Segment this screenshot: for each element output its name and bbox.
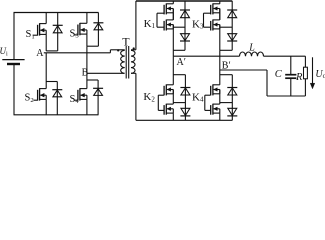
wire: K3 bottom to node B' (crosses A' wire) (219, 50, 221, 70)
wire: K4 top connection (219, 70, 221, 85)
bidirectional switch K1: upper MOSFET (164, 1, 173, 14)
K2: lower MOSFET (164, 104, 173, 115)
wire: K1 diode mid link (173, 26, 185, 28)
wire: inductor to output top right corner, down to R (264, 56, 306, 67)
wire: output bottom (267, 95, 305, 97)
svg-text:A′: A′ (177, 57, 186, 68)
switch S1 (MOSFET) (33, 13, 46, 36)
bidirectional switch K2: upper MOSFET (164, 84, 173, 95)
wire: K1 gate tie (157, 13, 164, 27)
K1 upper diode (cathode up) (180, 1, 190, 34)
wire: left vertical, top rail to battery (13, 13, 15, 60)
wire: S3 source junction to D3 (87, 34, 99, 46)
wire: K2 gate tie (158, 95, 164, 110)
wire: right bridge bottom rail (136, 119, 233, 121)
K1: lower MOSFET (164, 13, 173, 31)
wire: K4 tap to diode column (220, 74, 233, 76)
wire: B' down to output bottom (266, 70, 268, 96)
wire: right bridge top rail (136, 0, 232, 2)
polarity dot secondary (133, 47, 135, 49)
wire: K4 gate tie (205, 95, 211, 110)
transformer core (126, 46, 129, 79)
transformer T secondary winding (131, 50, 136, 74)
bidirectional switch K4: upper MOSFET (211, 84, 220, 95)
wire: S2 source to bottom rail (45, 99, 47, 114)
output voltage arrow Uo (310, 57, 315, 89)
wire: S4 drain tap to D4 (87, 79, 98, 81)
switch S2 (MOSFET) (33, 88, 46, 100)
node A' wire (173, 50, 239, 56)
wire: K3 bottom junction (220, 25, 232, 51)
wire: secondary top to right bridge top rail (135, 1, 137, 50)
wire: K3 gate tie (204, 13, 211, 27)
K4 upper diode (cathode up) (227, 75, 237, 109)
K3 lower diode (cathode down) (227, 34, 237, 51)
wire: K2 tap to diode column (173, 74, 185, 76)
transformer T primary winding (110, 50, 124, 74)
wire: S2 drain tap to D2 (46, 81, 57, 83)
wire: K1 bottom junction (173, 25, 185, 51)
diode D1 (antiparallel with S1) (53, 13, 63, 51)
svg-text:B′: B′ (222, 61, 231, 72)
wire: secondary bottom to right bridge bottom rail (135, 73, 137, 120)
node B' wire (220, 69, 267, 71)
polarity dot primary (117, 49, 119, 51)
svg-text:C: C (275, 69, 283, 80)
K1 lower diode (cathode down) (180, 34, 190, 51)
wire: left bridge bottom rail (14, 114, 99, 116)
bidirectional switch K3: upper MOSFET (211, 1, 220, 14)
K3: lower MOSFET (211, 13, 220, 31)
wire: K2 series link between MOSFETs (172, 90, 174, 105)
wire: left vertical, battery to bottom rail (13, 64, 15, 115)
wire: K2 source to bottom rail (172, 113, 174, 120)
wire: node B down to S4 drain (86, 73, 88, 88)
diode D3 (antiparallel with S3) (93, 13, 103, 47)
wire: S4 source to bottom rail (86, 99, 88, 114)
wire: node B to transformer primary bottom (87, 72, 124, 74)
K4 lower diode (cathode down) (227, 108, 237, 120)
wire: K3 diode mid link (220, 26, 232, 28)
wire: K2 diode mid link (173, 102, 185, 104)
wire: K4 diode mid link (220, 102, 233, 104)
K3 upper diode (cathode up) (227, 1, 237, 34)
diode D2 (antiparallel with S2) (52, 82, 62, 115)
K4: lower MOSFET (211, 104, 220, 115)
inductor L (240, 52, 264, 56)
wire: K3 series link between MOSFETs (219, 9, 221, 20)
wire: K4 series link between MOSFETs (219, 90, 221, 105)
K2 lower diode (cathode down) (180, 108, 190, 120)
wire: node A to transformer primary top (44, 50, 111, 53)
diode D4 (antiparallel with S4) (93, 80, 103, 115)
svg-text:R: R (295, 72, 303, 83)
svg-text:A: A (36, 48, 44, 59)
resistor R (304, 67, 308, 96)
wire: left bridge top rail (14, 12, 99, 14)
wire: K4 source to bottom rail (219, 113, 221, 120)
wire: S1 source to node A junction (46, 34, 58, 51)
wire: K2 top connection (172, 56, 174, 85)
wire: S3 source down to node B (crosses A wire) (86, 46, 88, 73)
wire: node A down to S2 drain (45, 53, 47, 89)
K2 upper diode (cathode up) (180, 75, 190, 109)
capacitor C (285, 56, 296, 96)
switch S3 (MOSFET) (74, 13, 87, 36)
DC source Ui battery (2, 60, 24, 64)
switch S4 (MOSFET) (74, 88, 87, 100)
wire: K1 series link between MOSFETs (172, 9, 174, 20)
